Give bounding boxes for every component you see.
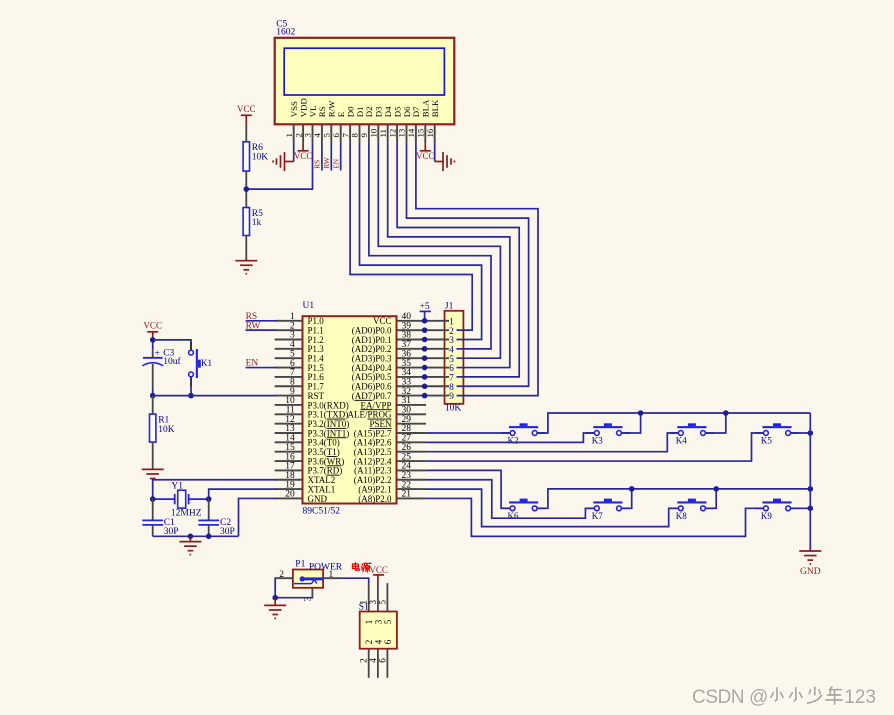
junction dot P1 ground [272, 595, 278, 601]
wire VCC to R6 [245, 115, 247, 124]
junction dot RST left [150, 393, 156, 399]
U1 pin 31 () [360, 396, 426, 410]
LCD pin 1 (VSS) [284, 101, 299, 143]
U1 pin 21 ((A8)P2.0) [358, 490, 426, 504]
resistor R5 1k [243, 208, 263, 236]
svg-text:K9: K9 [761, 511, 772, 521]
wire bus D3 (LCD pin 10) to P0.3/J1 pin 5 [378, 143, 500, 359]
U1 pin 20 (GND) [275, 490, 328, 504]
U1 pin 19 (XTAL1) [275, 480, 336, 494]
wire LCD BLK to ground [434, 143, 436, 162]
svg-text:3: 3 [368, 600, 378, 605]
wire P2.1 to K8 [426, 489, 678, 526]
svg-text:CSDN @: CSDN @ [692, 687, 768, 708]
junction dot R6/R5/VL [244, 186, 250, 192]
junction dot J1 row 35 [422, 365, 428, 371]
push button K5 [755, 423, 799, 445]
wire K3 to top rail [621, 413, 641, 433]
LCD pin 14 (D7) [406, 106, 421, 143]
wire K5 to ground rail [790, 432, 810, 434]
wire RS to U1 pin 1 [246, 320, 276, 322]
wire XTAL2 (U1 pin 18) to crystal [153, 480, 276, 499]
LCD pin 10 (D3) [369, 106, 384, 143]
S1 pin 5 top stub [377, 583, 392, 624]
junction dot rail C2 [206, 534, 212, 540]
junction dot rail bottom [808, 486, 814, 492]
wire C3 to RST node [152, 364, 154, 388]
wire LCD pin 4 net RS [321, 143, 323, 171]
U1 pin 25 ((A12)P2.4) [354, 452, 426, 466]
svg-text:VCC: VCC [143, 321, 162, 331]
wire bus D6 (LCD pin 13) to P0.6/J1 pin 8 [407, 143, 529, 387]
capacitor C1 30P [142, 499, 178, 537]
wire P2.5 to K4 [426, 433, 678, 452]
svg-text:K2: K2 [508, 436, 519, 446]
push button K6 [502, 499, 546, 521]
U1 pin 18 (XTAL2) [275, 471, 336, 485]
svg-text:3: 3 [373, 619, 383, 624]
LCD pin 9 (D2) [359, 106, 374, 142]
ground at LCD VSS [273, 152, 294, 171]
junction dot RST K1 [188, 393, 194, 399]
ground below crystal rail [179, 536, 201, 554]
ground below R5 [235, 260, 257, 262]
U1 pin 17 (P3.7) [275, 462, 343, 476]
svg-text:EN: EN [332, 158, 341, 169]
connector P1 POWER body [293, 570, 323, 588]
U1 pin 36 ((AD3)P0.3) [352, 349, 449, 363]
wire P2.7 to K2 [426, 432, 510, 434]
wire GND (U1 pin 20) down [239, 498, 277, 536]
push button K7 [586, 499, 630, 521]
svg-text:4: 4 [373, 639, 383, 644]
P1 pin 2 stub [276, 577, 293, 579]
svg-text:RS: RS [313, 160, 322, 169]
U1 pin 15 (P3.5) [275, 443, 340, 457]
junction dot J1 row 40 [422, 318, 428, 324]
svg-text:P1: P1 [295, 559, 305, 569]
LCD pin 6 (E) [331, 112, 346, 143]
ground GND right rail [799, 551, 821, 577]
S1 pin 4 bottom stub [368, 639, 383, 678]
wire bus D1 (LCD pin 8) to P0.1/J1 pin 3 [360, 143, 482, 340]
wire LCD VL to R6/R5 divider [246, 143, 312, 190]
ground below P1 [264, 598, 286, 619]
svg-text:10K: 10K [252, 152, 268, 162]
svg-text:123: 123 [844, 687, 876, 708]
svg-text:GND: GND [308, 494, 328, 504]
junction dot top rail K4 [723, 410, 729, 416]
svg-text:U1: U1 [303, 301, 315, 311]
connector S1 body [360, 612, 397, 649]
svg-text:12MHZ: 12MHZ [171, 509, 202, 519]
wire R6 to node [245, 171, 247, 207]
svg-text:+5: +5 [420, 302, 430, 312]
wire K4 to top rail [705, 413, 726, 433]
wire LCD pin 5 net RW [330, 143, 332, 171]
junction dot bottom rail K8 [713, 486, 719, 492]
wire LCD pin 6 net EN [340, 143, 342, 171]
U1 pin 22 ((A9)P2.1) [358, 480, 426, 494]
wire P2.6 to K3 [426, 433, 594, 442]
LCD display window [284, 48, 444, 95]
S1 pin 2 bottom stub [359, 640, 374, 678]
ground at LCD BLK [435, 152, 455, 171]
svg-text:VCC: VCC [237, 104, 256, 114]
svg-text:K7: K7 [592, 511, 603, 521]
junction dot VCC/C3/K1 [150, 337, 156, 343]
svg-text:BLK: BLK [430, 99, 440, 117]
svg-text:K5: K5 [761, 436, 772, 446]
U1 pin 34 ((AD5)P0.5) [352, 368, 449, 382]
junction dot crystal right [206, 496, 212, 502]
svg-text:1k: 1k [252, 218, 262, 228]
junction dot J1 row 39 [422, 327, 428, 333]
wire P2.2 to K7 [426, 480, 594, 518]
svg-text:Y1: Y1 [171, 482, 183, 492]
U1 pin 24 ((A11)P2.3) [354, 462, 426, 476]
U1 pin 39 ((AD0)P0.0) [352, 321, 449, 335]
resistor R1 10K [150, 414, 175, 442]
svg-text:K6: K6 [508, 511, 519, 521]
resistor network J1 10K body [445, 311, 464, 404]
junction dot top rail K3 [638, 410, 644, 416]
svg-text:(A8)P2.0: (A8)P2.0 [358, 494, 392, 504]
LCD pin 7 (D0) [340, 106, 355, 143]
svg-text:RW: RW [322, 157, 331, 169]
wire EN to U1 pin 6 [246, 367, 276, 369]
U1 pin 23 ((A10)P2.2) [354, 471, 426, 485]
push button K8 [670, 499, 714, 521]
U1 pin 1 (P1.0) [275, 312, 325, 326]
wire P1 pin 1 to S1 pin 1 [340, 578, 369, 584]
wire P1 pin 2 to ground [275, 578, 277, 598]
power +5 symbol [420, 302, 431, 321]
U1 pin 27 ((A14)P2.6) [354, 434, 426, 448]
junction dot rail K5 [808, 430, 814, 436]
svg-text:10K: 10K [158, 425, 175, 435]
wire K6 to bottom common rail [537, 489, 811, 508]
U1 pin 33 ((AD6)P0.6) [352, 377, 449, 391]
svg-text:10K: 10K [445, 404, 462, 414]
watermark CSDN [692, 687, 877, 709]
wire crystal ground rail [153, 535, 239, 537]
S1 pin 3 top stub [368, 583, 383, 624]
U1 pin 12 (P3.2) [275, 415, 350, 429]
U1 pin 38 ((AD1)P0.1) [352, 331, 449, 345]
U1 pin 4 (P1.3) [275, 340, 325, 354]
wire to K1 top [153, 340, 191, 342]
P1 pin 3 stub [304, 588, 314, 602]
svg-text:5: 5 [383, 619, 393, 624]
svg-text:VCC: VCC [416, 151, 435, 161]
P1 jack switch contact [294, 580, 317, 583]
LCD pin 8 (D1) [350, 106, 365, 142]
wire LCD VSS to ground [293, 143, 295, 162]
svg-text:+: + [155, 348, 160, 358]
svg-text:9: 9 [449, 392, 454, 402]
resistor R6 10K [243, 142, 268, 171]
svg-text:6: 6 [377, 658, 387, 663]
LCD pin 16 (BLK) [425, 99, 440, 143]
U1 pin 40 (VCC) [373, 312, 449, 326]
U1 pin 16 (P3.6) [275, 452, 345, 466]
power VCC above R6 [237, 104, 256, 116]
junction dot J1 row 36 [422, 355, 428, 361]
wire bus D0 (LCD pin 7) to P0.0/J1 pin 2 [350, 143, 472, 331]
U1 pin 13 (P3.3) [275, 424, 350, 438]
junction dot rail K9 [808, 506, 814, 512]
U1 pin 10 (P3.0) [275, 396, 349, 410]
ground below R1 [142, 468, 164, 470]
U1 pin 14 (P3.4) [275, 434, 340, 448]
wire bus D2 (LCD pin 9) to P0.2/J1 pin 4 [369, 143, 491, 349]
wire bus D5 (LCD pin 12) to P0.5/J1 pin 7 [397, 143, 519, 377]
LCD pin 15 (BLA) [416, 99, 431, 143]
svg-text:6: 6 [383, 639, 393, 644]
junction dot J1 row 34 [422, 374, 428, 380]
wire RST to R1 [152, 396, 154, 415]
svg-text:30P: 30P [164, 527, 179, 537]
U1 pin 32 (() [352, 387, 449, 401]
wire K7 to bottom rail [621, 489, 632, 508]
svg-text:16: 16 [425, 128, 435, 137]
U1 pin 3 (P1.2) [275, 331, 324, 345]
wire P2.4 to K5 [426, 433, 763, 461]
LCD pin 12 (D5) [387, 106, 402, 143]
wire XTAL1 (U1 pin 19) to crystal [209, 489, 276, 499]
wire R1 to ground [152, 442, 154, 469]
U1 pin 6 (P1.5) [275, 359, 325, 373]
U1 pin 9 (RST) [275, 387, 325, 401]
LCD pin 11 (D4) [378, 106, 393, 143]
capacitor C2 30P [198, 499, 234, 537]
wire K2 to top common rail [537, 413, 811, 433]
junction dot rail ground tap [188, 534, 194, 540]
S1 pin 1 top stub [359, 584, 374, 624]
push button K4 [670, 423, 714, 445]
U1 pin 37 ((AD2)P0.2) [352, 340, 449, 354]
LCD pin 2 (VDD) [293, 98, 308, 142]
push button K3 [586, 423, 630, 445]
svg-text:K8: K8 [676, 511, 687, 521]
LCD pin 3 (VL) [303, 105, 318, 142]
junction dot crystal left [150, 496, 156, 502]
svg-text:1602: 1602 [276, 28, 295, 38]
wire K8 to bottom rail [705, 489, 716, 508]
MCU U1 89C51/52 body [303, 316, 397, 503]
S1 pin 6 bottom stub [377, 639, 392, 678]
U1 pin 8 (P1.7) [275, 377, 325, 391]
wire K1 bottom to RST [190, 387, 192, 396]
U1 pin 26 ((A13)P2.5) [354, 443, 426, 457]
power VCC at S1 [369, 565, 388, 583]
svg-text:20: 20 [285, 490, 295, 500]
svg-text:J1: J1 [445, 301, 454, 311]
LCD module C5 1602 body [275, 38, 455, 125]
net label 电源 (power) [353, 563, 372, 573]
svg-text:VCC: VCC [369, 565, 388, 575]
U1 pin 28 ((A15)P2.7) [354, 424, 426, 438]
svg-text:30P: 30P [220, 527, 235, 537]
U1 pin 7 (P1.6) [275, 368, 325, 382]
wire P1 pin 3 to ground [275, 596, 312, 599]
P1 pin 1 stub [323, 577, 340, 579]
U1 pin 30 (ALE/) [347, 406, 426, 420]
svg-text:K4: K4 [676, 436, 687, 446]
push button K9 [755, 499, 799, 521]
svg-text:89C51/52: 89C51/52 [303, 507, 341, 517]
svg-text:POWER: POWER [309, 562, 343, 572]
svg-text:K3: K3 [592, 436, 603, 446]
wire bus D4 (LCD pin 11) to P0.4/J1 pin 6 [388, 143, 510, 368]
push button K1 [189, 342, 212, 387]
power VCC at LCD VDD [294, 143, 313, 162]
U1 pin 35 ((AD4)P0.4) [352, 359, 449, 373]
wire R5 to ground [245, 236, 247, 261]
U1 pin 5 (P1.4) [275, 349, 325, 363]
power VCC at LCD BLA [416, 143, 435, 162]
push button K2 [502, 423, 546, 445]
P1 jack contact bar [300, 576, 324, 581]
junction dot bottom rail K7 [629, 486, 635, 492]
svg-text:4: 4 [368, 658, 378, 663]
U1 pin 2 (P1.1) [275, 321, 324, 335]
LCD pin 4 (RS) [312, 106, 327, 142]
wire RW to U1 pin 2 [246, 329, 276, 331]
power VCC reset circuit [143, 321, 162, 332]
junction dot J1 row 32 [422, 393, 428, 399]
crystal Y1 12MHZ [153, 482, 209, 519]
svg-text:5: 5 [377, 600, 387, 605]
LCD pin 13 (D6) [397, 106, 412, 143]
wire right ground rail [809, 413, 811, 551]
svg-text:GND: GND [800, 567, 821, 577]
svg-text:VCC: VCC [294, 151, 313, 161]
wire P2.3 to K6 [426, 470, 510, 508]
wire bus D7 (LCD pin 14) to P0.7/J1 pin 9 [416, 143, 538, 396]
junction dot J1 row 33 [422, 383, 428, 389]
wire K9 to ground rail [790, 507, 810, 509]
svg-text:K1: K1 [201, 358, 212, 368]
wire P2.0 to K9 [426, 498, 763, 536]
wire VCC to reset node [152, 332, 154, 337]
wire RST node to U1 pin 9 [153, 395, 276, 397]
U1 pin 11 (P3.1) [275, 406, 349, 420]
junction dot J1 row 38 [422, 337, 428, 343]
svg-text:10uf: 10uf [163, 356, 181, 367]
svg-text:21: 21 [402, 490, 412, 500]
capacitor C3 10uf [142, 348, 181, 367]
LCD pin 5 (R/W) [322, 100, 337, 143]
junction dot J1 row 37 [422, 346, 428, 352]
U1 pin 29 () [369, 415, 426, 429]
